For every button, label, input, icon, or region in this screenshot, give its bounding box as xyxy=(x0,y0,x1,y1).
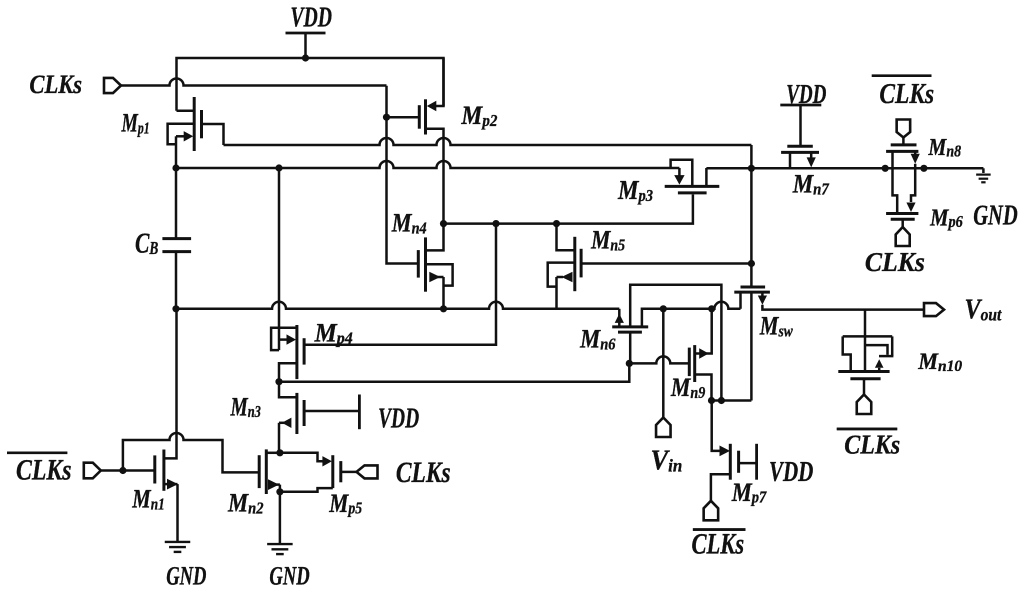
svg-text:GND: GND xyxy=(166,561,206,591)
svg-text:CLKs: CLKs xyxy=(879,78,934,110)
svg-text:CLKs: CLKs xyxy=(16,454,72,487)
svg-text:VDD: VDD xyxy=(290,2,332,33)
svg-text:CLKs: CLKs xyxy=(396,456,451,489)
svg-text:CLKs: CLKs xyxy=(29,69,82,99)
svg-text:CLKs: CLKs xyxy=(692,529,745,561)
svg-text:GND: GND xyxy=(269,561,309,591)
svg-text:VDD: VDD xyxy=(786,79,826,109)
svg-text:CLKs: CLKs xyxy=(844,429,900,460)
svg-text:GND: GND xyxy=(973,200,1018,232)
svg-text:VDD: VDD xyxy=(378,404,419,435)
svg-text:VDD: VDD xyxy=(769,457,813,488)
svg-text:CLKs: CLKs xyxy=(865,247,925,277)
